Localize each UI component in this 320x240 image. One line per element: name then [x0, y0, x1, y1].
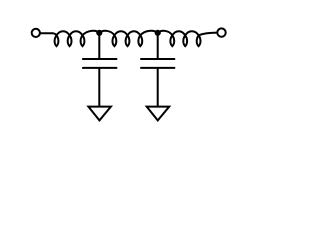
ground GND1: [88, 107, 111, 121]
ground GND2: [147, 107, 170, 121]
inductor L1: [40, 31, 99, 46]
terminal right port circle: [217, 28, 225, 36]
wire C2 top lead: [157, 33, 159, 58]
node junction dot 2: [155, 30, 161, 36]
node junction dot 1: [96, 30, 102, 36]
wire C1 bottom lead: [98, 69, 100, 106]
inductor L2: [99, 31, 157, 46]
capacitor C2: [141, 59, 174, 68]
terminal left port circle: [32, 29, 40, 37]
wire C2 bottom lead: [157, 69, 159, 106]
wire C1 top lead: [98, 33, 100, 58]
capacitor C1: [83, 59, 117, 68]
inductor L3: [158, 31, 218, 46]
